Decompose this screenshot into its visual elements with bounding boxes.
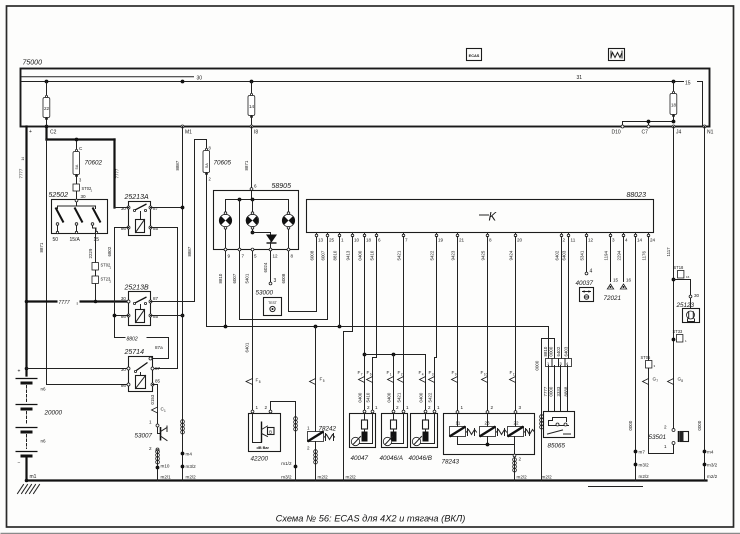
svg-text:6008: 6008 bbox=[281, 273, 286, 283]
svg-text:m3/2: m3/2 bbox=[281, 475, 292, 480]
svg-text:N1: N1 bbox=[707, 130, 714, 136]
svg-text:0000: 0000 bbox=[549, 386, 554, 396]
svg-text:40046/B: 40046/B bbox=[409, 455, 432, 462]
svg-text:9: 9 bbox=[455, 373, 457, 377]
svg-text:1: 1 bbox=[256, 405, 259, 410]
svg-text:8871: 8871 bbox=[39, 242, 44, 252]
svg-text:86: 86 bbox=[121, 383, 127, 388]
svg-text:7777: 7777 bbox=[115, 168, 120, 178]
wire 8810 lamp to rail bbox=[218, 251, 226, 327]
svg-text:1176: 1176 bbox=[642, 251, 647, 261]
svg-text:85: 85 bbox=[155, 379, 161, 384]
pressure sensor 40046/B bbox=[409, 405, 441, 462]
svg-text:2: 2 bbox=[664, 425, 667, 430]
svg-text:30: 30 bbox=[121, 206, 127, 211]
svg-text:5A: 5A bbox=[74, 164, 79, 169]
svg-text:1: 1 bbox=[437, 405, 440, 410]
svg-text:5421: 5421 bbox=[397, 392, 402, 402]
svg-text:5A: 5A bbox=[204, 163, 209, 168]
svg-text:7777: 7777 bbox=[19, 168, 24, 178]
svg-text:87: 87 bbox=[155, 366, 161, 371]
svg-text:87a: 87a bbox=[155, 345, 163, 350]
svg-text:Схема № 56: ECAS для 4X2 и тяг: Схема № 56: ECAS для 4X2 и тягача (ВКЛ) bbox=[276, 514, 466, 524]
svg-text:−: − bbox=[18, 461, 21, 467]
stray mark line bbox=[589, 486, 643, 488]
svg-text:6: 6 bbox=[370, 373, 372, 377]
ground column M1 m4 labels bbox=[181, 420, 197, 480]
svg-text:9423: 9423 bbox=[451, 250, 456, 260]
svg-text:ST05: ST05 bbox=[641, 355, 652, 360]
svg-text:5: 5 bbox=[323, 379, 325, 383]
svg-text:2: 2 bbox=[265, 405, 268, 410]
svg-text:2: 2 bbox=[563, 238, 566, 243]
wire 1176 pin24 to 53501 via ST05 and G7 bbox=[641, 237, 674, 454]
svg-text:1: 1 bbox=[307, 426, 310, 431]
svg-text:53007: 53007 bbox=[135, 433, 153, 440]
solenoid valve block 78243 bbox=[442, 405, 553, 481]
diagnostic socket 40037 bbox=[576, 280, 594, 302]
svg-text:6024: 6024 bbox=[263, 262, 268, 272]
ECU 88023 bbox=[307, 192, 654, 233]
svg-text:18: 18 bbox=[366, 238, 372, 243]
svg-text:8887: 8887 bbox=[187, 246, 192, 256]
wire 8887 relayB87 to fuse 70605 bbox=[187, 140, 207, 302]
svg-text:3: 3 bbox=[612, 238, 615, 243]
svg-text:1: 1 bbox=[341, 238, 344, 243]
wire 0153 to 53007 bbox=[150, 385, 158, 424]
4-pole connector block bbox=[546, 359, 572, 367]
svg-text:0400: 0400 bbox=[358, 250, 363, 260]
battery feed wire 7777 bbox=[19, 127, 29, 376]
svg-text:3: 3 bbox=[519, 405, 522, 410]
svg-text:m2/2: m2/2 bbox=[707, 474, 718, 479]
wire 2229 + ST02/ST23 bbox=[88, 229, 112, 304]
svg-text:m3/2: m3/2 bbox=[707, 463, 718, 468]
svg-text:6007: 6007 bbox=[321, 250, 326, 260]
svg-text:0400: 0400 bbox=[387, 392, 392, 402]
svg-text:86: 86 bbox=[121, 314, 127, 319]
svg-text:dB Bar: dB Bar bbox=[257, 446, 270, 450]
svg-text:7: 7 bbox=[656, 379, 658, 383]
4-pole connector labels above bbox=[543, 346, 569, 356]
svg-text:30: 30 bbox=[81, 194, 87, 199]
connector ST33 + arrow G8 bbox=[668, 329, 688, 385]
svg-text:2229: 2229 bbox=[88, 248, 93, 258]
svg-text:1117: 1117 bbox=[666, 247, 671, 257]
svg-text:8810: 8810 bbox=[333, 250, 338, 260]
svg-text:11: 11 bbox=[513, 373, 517, 377]
svg-text:5410: 5410 bbox=[370, 250, 375, 260]
svg-text:16: 16 bbox=[686, 275, 690, 279]
svg-text:m7: m7 bbox=[639, 450, 646, 455]
svg-text:8887: 8887 bbox=[175, 160, 180, 170]
svg-text:72021: 72021 bbox=[604, 295, 622, 302]
wire 9424 pin20 to 78243 bbox=[510, 237, 517, 412]
svg-text:8: 8 bbox=[681, 379, 683, 383]
svg-text:85: 85 bbox=[153, 226, 159, 231]
connector ST02-1 bbox=[73, 184, 93, 193]
svg-text:8802: 8802 bbox=[127, 337, 138, 343]
wires 6402/6403 ECU to connector bbox=[561, 237, 563, 359]
svg-text:7777: 7777 bbox=[59, 300, 70, 306]
svg-text:25714: 25714 bbox=[124, 349, 145, 356]
fuse 22 bbox=[43, 82, 50, 127]
wire 9423 pin21 to 78243 bbox=[452, 237, 458, 412]
wire 1117 J4 to 25123/53501 bbox=[666, 127, 700, 429]
svg-text:8: 8 bbox=[489, 238, 492, 243]
svg-text:2: 2 bbox=[519, 457, 522, 462]
svg-text:58905: 58905 bbox=[272, 183, 292, 190]
svg-text:9425: 9425 bbox=[481, 250, 486, 260]
svg-text:15: 15 bbox=[613, 278, 619, 283]
svg-text:5: 5 bbox=[254, 254, 257, 259]
svg-text:2294: 2294 bbox=[617, 250, 622, 260]
svg-text:2: 2 bbox=[428, 405, 431, 410]
svg-text:6007: 6007 bbox=[232, 273, 237, 283]
svg-text:M1: M1 bbox=[185, 130, 192, 136]
svg-text:s: s bbox=[77, 302, 79, 306]
platform switch 85065 bbox=[544, 412, 575, 450]
wire 6024 to test terminal bbox=[263, 251, 277, 285]
wire 5341 pin12 to 40037 bbox=[585, 237, 592, 275]
svg-text:C7: C7 bbox=[642, 130, 649, 136]
svg-text:2: 2 bbox=[401, 373, 403, 377]
svg-text:78243: 78243 bbox=[442, 459, 460, 466]
wire 7777 horizontal thick to relay B bbox=[27, 297, 128, 307]
svg-text:6403: 6403 bbox=[564, 346, 569, 356]
test connector 53000 bbox=[256, 290, 282, 316]
svg-text:1: 1 bbox=[149, 420, 152, 425]
svg-text:2: 2 bbox=[149, 446, 152, 451]
svg-text:1: 1 bbox=[461, 405, 464, 410]
diode bbox=[266, 235, 277, 249]
svg-text:5421: 5421 bbox=[397, 250, 402, 260]
fuse 18 bbox=[670, 82, 677, 122]
svg-text:2: 2 bbox=[307, 446, 310, 451]
ECU pin wire labels bbox=[310, 250, 647, 260]
svg-text:n6: n6 bbox=[41, 387, 47, 392]
svg-text:m1: m1 bbox=[30, 474, 37, 480]
svg-text:1194: 1194 bbox=[604, 251, 609, 261]
svg-text:+: + bbox=[29, 129, 32, 135]
wire 9413 pin10 to ground bbox=[344, 237, 357, 481]
wire pin14 to ground m7 bbox=[628, 237, 649, 481]
svg-text:5401: 5401 bbox=[245, 273, 250, 283]
svg-text:0000: 0000 bbox=[697, 420, 702, 430]
wire relayA85 to 25714-87 bbox=[177, 228, 179, 369]
wire 6007 lamp to ECU pin25 bbox=[232, 237, 328, 320]
svg-text:8: 8 bbox=[259, 380, 261, 384]
svg-text:D10: D10 bbox=[612, 130, 621, 136]
svg-text:14: 14 bbox=[249, 104, 255, 109]
svg-text:42200: 42200 bbox=[251, 456, 269, 463]
connector wires down to 85065 bbox=[543, 366, 569, 412]
svg-text:40037: 40037 bbox=[576, 280, 594, 287]
transistor switch 53007 bbox=[135, 420, 172, 481]
svg-text:m2/2: m2/2 bbox=[542, 475, 553, 480]
svg-text:1: 1 bbox=[375, 405, 378, 410]
arrows F1 F2 bbox=[387, 370, 404, 403]
58905 bottom pins bbox=[224, 248, 293, 258]
svg-text:31: 31 bbox=[577, 75, 583, 81]
svg-text:2: 2 bbox=[491, 405, 494, 410]
svg-text:70605: 70605 bbox=[214, 160, 232, 167]
wire 5421 pin7 to 40046/A bbox=[403, 237, 405, 411]
svg-text:3: 3 bbox=[432, 373, 434, 377]
arrow F8 bbox=[246, 378, 261, 385]
svg-text:1: 1 bbox=[164, 409, 166, 413]
suspension legend box bbox=[609, 49, 625, 61]
buzzer control 42200 bbox=[249, 402, 298, 481]
svg-text:23: 23 bbox=[485, 421, 491, 426]
wire 6008 lamp to ECU pin13 bbox=[281, 237, 317, 312]
svg-text:25213B: 25213B bbox=[124, 285, 149, 292]
wire 5401/6401 lamp to 42200 bbox=[245, 251, 253, 411]
svg-text:22: 22 bbox=[44, 106, 50, 111]
arrows F7 F6 bbox=[358, 370, 373, 403]
svg-text:m4: m4 bbox=[707, 450, 714, 455]
svg-text:86: 86 bbox=[121, 226, 127, 231]
svg-text:10: 10 bbox=[354, 238, 360, 243]
svg-text:m2/2: m2/2 bbox=[318, 475, 329, 480]
svg-text:6403: 6403 bbox=[562, 250, 567, 260]
relay 25213B bbox=[115, 285, 195, 326]
ground bus bottom bbox=[25, 474, 707, 482]
svg-text:ECAS: ECAS bbox=[469, 53, 480, 58]
svg-text:ST33: ST33 bbox=[673, 329, 684, 334]
pressure sensor 40047 bbox=[350, 405, 379, 462]
svg-text:8810: 8810 bbox=[218, 273, 223, 283]
arrows F4 F3 bbox=[419, 370, 435, 403]
svg-text:16: 16 bbox=[626, 278, 632, 283]
wire D10-C7-J4 bbox=[623, 121, 674, 123]
svg-text:30: 30 bbox=[121, 367, 127, 372]
rail end to connector pin1 bbox=[548, 327, 550, 359]
fuse 70602 bbox=[73, 138, 103, 200]
svg-text:20000: 20000 bbox=[44, 410, 63, 417]
svg-text:+: + bbox=[18, 369, 21, 375]
svg-text:2: 2 bbox=[396, 405, 399, 410]
svg-text:21: 21 bbox=[459, 238, 465, 243]
svg-text:4: 4 bbox=[422, 373, 424, 377]
svg-text:7777: 7777 bbox=[543, 386, 548, 396]
battery 20000 bbox=[16, 369, 63, 481]
svg-text:6401: 6401 bbox=[245, 342, 250, 352]
svg-text:75000: 75000 bbox=[23, 60, 43, 67]
svg-text:9424: 9424 bbox=[509, 250, 514, 260]
svg-text:1: 1 bbox=[390, 373, 392, 377]
valve 78242 bbox=[307, 327, 337, 481]
svg-text:0153: 0153 bbox=[150, 394, 155, 404]
svg-text:m2/2: m2/2 bbox=[346, 475, 357, 480]
svg-text:5341: 5341 bbox=[580, 250, 585, 260]
svg-text:9413: 9413 bbox=[346, 250, 351, 260]
svg-text:11: 11 bbox=[456, 421, 461, 426]
svg-text:6008: 6008 bbox=[310, 250, 315, 260]
wire 30/31/15 bbox=[22, 81, 684, 83]
wire 8802 relayB86 to 25714-87a bbox=[113, 314, 169, 359]
ECAS legend box bbox=[467, 49, 482, 61]
svg-text:87: 87 bbox=[153, 206, 159, 211]
wire N1 to ground m4 bbox=[697, 127, 718, 481]
svg-text:m2/1: m2/1 bbox=[161, 475, 172, 480]
svg-text:1: 1 bbox=[406, 405, 409, 410]
svg-text:40046/A: 40046/A bbox=[380, 455, 403, 462]
buzzer 53501 bbox=[649, 425, 689, 450]
svg-text:I8: I8 bbox=[254, 130, 258, 136]
svg-text:70602: 70602 bbox=[85, 160, 103, 167]
svg-text:5410: 5410 bbox=[366, 392, 371, 402]
svg-text:50: 50 bbox=[53, 237, 59, 243]
svg-text:85065: 85065 bbox=[548, 443, 566, 450]
svg-text:5422: 5422 bbox=[430, 250, 435, 260]
svg-text:C2: C2 bbox=[50, 130, 57, 136]
ground bypass wire 0000 bbox=[535, 339, 555, 481]
svg-text:n6: n6 bbox=[41, 439, 47, 444]
svg-text:14: 14 bbox=[21, 157, 25, 161]
wire 8871 I8 to 58905 bbox=[244, 127, 257, 191]
svg-text:6802: 6802 bbox=[107, 246, 112, 256]
svg-text:5422: 5422 bbox=[428, 392, 433, 402]
svg-text:13: 13 bbox=[318, 238, 324, 243]
svg-text:25213A: 25213A bbox=[124, 194, 149, 201]
svg-text:6: 6 bbox=[254, 184, 257, 189]
svg-text:2: 2 bbox=[367, 405, 370, 410]
svg-text:53000: 53000 bbox=[256, 290, 274, 297]
svg-text:m2/2: m2/2 bbox=[639, 474, 650, 479]
svg-text:10: 10 bbox=[484, 373, 488, 377]
fuse 70605 bbox=[203, 140, 232, 327]
fuse 14 bbox=[248, 82, 255, 127]
svg-text:B: B bbox=[269, 430, 272, 435]
wire 5422 pin19 to 40046/B bbox=[435, 237, 437, 411]
relay 25714 bbox=[121, 345, 163, 392]
svg-text:9: 9 bbox=[228, 254, 231, 259]
svg-text:20: 20 bbox=[517, 238, 523, 243]
svg-text:30: 30 bbox=[197, 75, 203, 81]
svg-text:TEST: TEST bbox=[268, 301, 277, 305]
svg-text:m4: m4 bbox=[186, 452, 193, 457]
svg-text:6: 6 bbox=[378, 238, 381, 243]
svg-text:K: K bbox=[489, 212, 498, 224]
svg-text:15: 15 bbox=[94, 237, 100, 243]
svg-text:24: 24 bbox=[650, 238, 656, 243]
wire C2 thick branch bbox=[47, 127, 115, 140]
svg-text:m1/2: m1/2 bbox=[281, 461, 292, 466]
svg-text:8: 8 bbox=[291, 254, 294, 259]
svg-text:7: 7 bbox=[242, 254, 245, 259]
wire 7777 to relay A30 bbox=[115, 140, 120, 208]
ECU pins row bbox=[315, 233, 655, 243]
svg-text:8888: 8888 bbox=[564, 386, 569, 396]
wires 1194/2294 to 72021 bbox=[604, 237, 632, 303]
svg-text:85: 85 bbox=[153, 314, 159, 319]
svg-text:J4: J4 bbox=[676, 130, 682, 136]
lamp 1 bbox=[219, 212, 231, 229]
svg-text:4: 4 bbox=[590, 269, 593, 275]
svg-text:0000: 0000 bbox=[628, 420, 633, 430]
pressure sensor 40046/A bbox=[380, 405, 410, 462]
supply rail from fuse 70605 bbox=[207, 325, 549, 329]
svg-text:1: 1 bbox=[664, 444, 667, 449]
wire 8871 C2 down bbox=[39, 140, 129, 385]
wire 0400 pin18 down + 0400 distribution rail bbox=[363, 237, 426, 411]
warning lamp 25123 bbox=[676, 298, 700, 323]
wire 9425 pin8 to 78243 bbox=[481, 237, 488, 412]
lamp module 58905 bbox=[214, 183, 299, 250]
wire battery to relay 25714 pin30 bbox=[27, 368, 129, 370]
svg-text:8871: 8871 bbox=[244, 160, 249, 170]
svg-text:14: 14 bbox=[637, 238, 643, 243]
svg-text:40047: 40047 bbox=[351, 455, 369, 462]
wire 8810 pin1 to rail bbox=[339, 237, 341, 327]
svg-text:3333: 3333 bbox=[556, 386, 561, 396]
svg-text:15/A: 15/A bbox=[70, 237, 81, 243]
wire 6802 relayA86 to relayB86 bbox=[107, 228, 115, 316]
svg-text:0000: 0000 bbox=[549, 346, 554, 356]
ignition switch 52502 bbox=[49, 192, 108, 243]
svg-text:0000: 0000 bbox=[535, 360, 540, 370]
svg-text:m2/2: m2/2 bbox=[517, 475, 528, 480]
svg-text:52502: 52502 bbox=[49, 192, 69, 199]
svg-text:30: 30 bbox=[694, 293, 700, 298]
svg-text:18: 18 bbox=[671, 103, 677, 108]
svg-text:8810: 8810 bbox=[543, 346, 548, 356]
svg-text:4: 4 bbox=[625, 238, 628, 243]
svg-text:6402: 6402 bbox=[555, 250, 560, 260]
svg-text:3: 3 bbox=[274, 278, 277, 284]
lamp 3 bbox=[282, 212, 294, 229]
wire 5410 pin6 to 40047 bbox=[373, 237, 377, 411]
scan edge line bottom bbox=[1, 533, 740, 534]
wire M1 8887 column bbox=[175, 127, 184, 481]
svg-text:12: 12 bbox=[273, 254, 279, 259]
svg-text:19: 19 bbox=[438, 238, 444, 243]
svg-text:m3/2: m3/2 bbox=[639, 463, 650, 468]
svg-text:87: 87 bbox=[153, 296, 159, 301]
lamp 2 bbox=[246, 212, 259, 229]
svg-text:m3/2: m3/2 bbox=[186, 464, 197, 469]
svg-text:0400: 0400 bbox=[358, 392, 363, 402]
svg-text:53501: 53501 bbox=[649, 434, 667, 441]
svg-text:7: 7 bbox=[405, 238, 408, 243]
svg-text:0400: 0400 bbox=[419, 392, 424, 402]
svg-text:12: 12 bbox=[588, 238, 594, 243]
svg-text:11: 11 bbox=[571, 238, 576, 243]
arrow C1 bbox=[152, 407, 167, 414]
svg-text:30: 30 bbox=[121, 296, 127, 301]
svg-text:7: 7 bbox=[361, 373, 363, 377]
svg-text:m2/2: m2/2 bbox=[186, 475, 197, 480]
svg-text:25: 25 bbox=[329, 238, 335, 243]
svg-text:6402: 6402 bbox=[556, 346, 561, 356]
relay 25213A bbox=[115, 194, 183, 236]
svg-text:88023: 88023 bbox=[627, 192, 647, 199]
bus terminals bbox=[29, 125, 714, 136]
svg-text:22: 22 bbox=[514, 421, 520, 426]
svg-text:ST18: ST18 bbox=[674, 265, 685, 270]
ground symbol m1 bbox=[18, 485, 40, 494]
svg-text:m10: m10 bbox=[161, 464, 170, 469]
svg-text:15: 15 bbox=[685, 80, 691, 86]
